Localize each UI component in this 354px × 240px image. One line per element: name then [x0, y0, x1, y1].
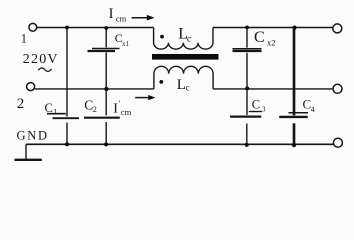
svg-text:220V: 220V — [23, 52, 59, 67]
svg-text:2: 2 — [17, 96, 25, 112]
svg-text:cm: cm — [116, 13, 127, 23]
svg-text:1: 1 — [21, 32, 27, 46]
svg-text:I: I — [109, 6, 114, 22]
svg-text:1: 1 — [53, 108, 57, 117]
svg-text:C: C — [252, 97, 260, 111]
svg-text:4: 4 — [311, 105, 315, 114]
svg-text:x2: x2 — [267, 37, 276, 47]
svg-text:x1: x1 — [122, 40, 130, 48]
svg-text:c: c — [186, 82, 190, 92]
svg-text:2: 2 — [93, 105, 97, 114]
svg-text:L: L — [177, 77, 186, 93]
svg-text:3: 3 — [262, 105, 266, 113]
svg-text:C: C — [45, 101, 53, 115]
svg-text:GND: GND — [17, 128, 49, 142]
svg-text:cm: cm — [121, 107, 132, 117]
svg-text:c: c — [187, 34, 191, 44]
svg-text:C: C — [254, 29, 265, 46]
svg-text:I: I — [113, 102, 118, 117]
